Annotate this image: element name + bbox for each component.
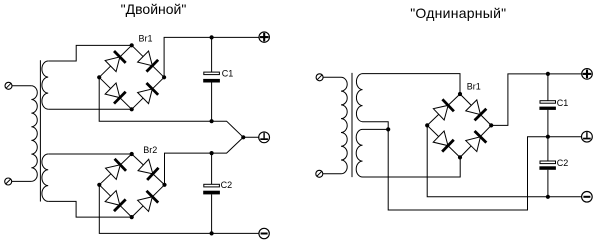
wire C1 top lead: [211, 37, 213, 72]
wire secondary1 top to Br1 top: [48, 45, 132, 61]
bridge Br3 side L-T: [427, 94, 460, 125]
transformer T2 primary terminal bottom: [316, 170, 323, 177]
svg-text:"Однинарный": "Однинарный": [410, 5, 506, 21]
wire Br3 right to plus rail: [491, 74, 582, 126]
wire Br2 left to minus rail: [99, 185, 259, 234]
node C2 right bottom junction: [546, 195, 550, 199]
transformer T2 primary terminal top: [316, 74, 323, 81]
svg-text:Br1: Br1: [139, 33, 153, 43]
node Br1 bottom: [130, 107, 134, 111]
terminal minus left: [259, 228, 269, 238]
bridge Br2 side L-T: [99, 154, 131, 185]
capacitor C1 right: [539, 101, 556, 110]
diode Br2 D2: [138, 159, 160, 181]
transformer T2 secondary winding 1: [356, 74, 362, 122]
diode Br3 D2: [465, 100, 487, 122]
bridge Br1 side L-T: [99, 45, 132, 77]
diode Br1 D1: [105, 50, 127, 72]
wire Br1 left to common: [99, 77, 259, 137]
bridge Br1 side T-R: [132, 45, 164, 77]
diode Br2 D4: [137, 190, 159, 212]
wire secondary2 bottom to Br2 bottom: [48, 201, 132, 217]
node Br2 right: [162, 183, 166, 187]
diode Br1 D4: [137, 82, 159, 104]
capacitor C1: [203, 72, 220, 82]
wire Br2 right to common: [165, 137, 244, 185]
node Br3 bottom: [458, 155, 462, 159]
wire C2 right bottom lead: [547, 170, 549, 197]
transformer T1 primary terminal bottom: [5, 178, 12, 185]
node C2 bottom junction: [210, 231, 214, 235]
bridge Br3 side T-R: [460, 94, 491, 125]
wire Br3 left to minus rail: [427, 125, 582, 196]
svg-text:C1: C1: [222, 68, 234, 78]
bridge Br3 side B-R: [460, 125, 491, 157]
wire C2 bottom lead: [211, 194, 213, 233]
capacitor C2: [203, 184, 220, 194]
node C1 top junction: [210, 35, 214, 39]
svg-text:C2: C2: [557, 158, 569, 168]
wire: [323, 76, 341, 78]
transformer T2 primary winding: [341, 77, 347, 174]
bridge Br1 side B-R: [132, 77, 164, 109]
transformer T1 secondary winding 1: [42, 61, 48, 109]
transformer T1 primary terminal top: [5, 82, 12, 89]
node Br1 top: [130, 43, 134, 47]
wire secondary1 bottom to Br1 bottom: [48, 108, 132, 110]
capacitor C2 right: [539, 161, 556, 170]
transformer T1 primary winding: [31, 86, 37, 182]
bridge Br1 side L-B: [99, 77, 132, 109]
bridge Br2 side T-R: [132, 154, 165, 185]
node Br1 right: [162, 75, 166, 79]
node Br3 top: [458, 92, 462, 96]
transformer T2 secondary winding 2: [356, 129, 362, 177]
wire C2 top lead: [211, 153, 213, 184]
wire C2 right top lead: [547, 137, 549, 161]
diode Br3 D1: [433, 98, 455, 120]
node common junction: [241, 135, 245, 139]
svg-text:"Двойной": "Двойной": [121, 1, 187, 17]
wire: [323, 173, 341, 175]
diode Br1 D3: [105, 83, 127, 105]
terminal minus right: [582, 192, 593, 203]
transformer T2 core: [351, 73, 353, 177]
wire Br1 right to plus rail: [164, 37, 259, 77]
transformer T1 secondary winding 2: [42, 154, 48, 201]
bridge Br2 side L-B: [99, 185, 131, 217]
diode Br1 D2: [137, 51, 159, 73]
bridge Br2 side B-R: [132, 185, 165, 217]
terminal ground left: [259, 132, 270, 143]
node C2 top junction: [210, 151, 214, 155]
wire: [12, 85, 31, 87]
svg-text:C1: C1: [557, 98, 569, 108]
node C1 bottom junction: [210, 119, 214, 123]
node Br1 left: [97, 75, 101, 79]
diode Br2 D1: [105, 158, 127, 180]
wire: [12, 180, 32, 182]
wire secondary1 top to Br3 top: [363, 74, 461, 94]
node Br2 bottom: [130, 215, 134, 219]
terminal ground right: [582, 131, 593, 142]
diode Br3 D4: [465, 130, 487, 152]
wire C1 bottom lead: [211, 83, 213, 122]
svg-text:Br2: Br2: [143, 145, 157, 155]
node Br2 top: [130, 152, 134, 156]
wire C1 right top lead: [547, 74, 549, 101]
wire secondary1 bottom to tap junction: [363, 122, 389, 130]
terminal plus right: [582, 69, 593, 80]
transformer T1 core: [39, 60, 41, 201]
wire secondary2 top to Br2 top: [48, 153, 132, 155]
bridge Br3 side L-B: [427, 125, 460, 157]
svg-text:Br1: Br1: [467, 82, 481, 92]
node Br3 left: [425, 123, 429, 127]
node ground rail junction: [546, 135, 550, 139]
node Br3 right: [489, 123, 493, 127]
node C1 right top junction: [546, 72, 550, 76]
wire C1 right bottom lead: [547, 110, 549, 137]
node Br2 left: [97, 183, 101, 187]
wire secondary2 top to tap junction: [363, 128, 389, 130]
diode Br2 D3: [105, 190, 127, 212]
diode Br3 D3: [433, 131, 455, 153]
wire tap junction to ground rail: [388, 129, 582, 210]
node tap junction: [386, 127, 390, 131]
svg-text:C2: C2: [221, 180, 233, 190]
wire secondary2 bottom to Br3 bottom: [363, 157, 461, 177]
terminal plus left: [259, 32, 269, 42]
